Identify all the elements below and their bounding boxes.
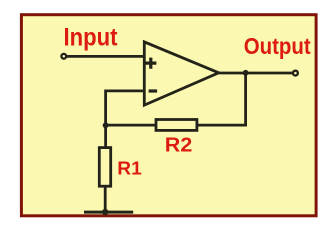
panel background with red border frame <box>21 15 316 216</box>
output terminal <box>293 71 298 76</box>
wire input to non-inverting pin <box>67 55 145 58</box>
svg-text:R2: R2 <box>165 135 193 157</box>
wire op-amp output to output terminal <box>219 72 293 75</box>
resistor R2 <box>156 120 197 131</box>
node A (feedback junction) <box>103 122 109 128</box>
svg-text:R1: R1 <box>117 157 142 178</box>
op-amp U1 <box>144 42 218 105</box>
op-amp minus pin marker <box>149 89 158 92</box>
op-amp plus pin marker <box>145 58 156 69</box>
wire node A to R2 left <box>106 124 156 127</box>
wire node A down to R1 top <box>104 125 107 147</box>
wire R2 right up to output node <box>197 73 246 125</box>
svg-text:Input: Input <box>64 23 119 51</box>
ground <box>84 211 133 214</box>
wire R1 bottom to ground <box>104 186 107 212</box>
resistor R1 <box>99 148 110 187</box>
ground junction dot <box>102 209 108 215</box>
svg-text:Output: Output <box>244 33 311 59</box>
input terminal <box>61 54 66 59</box>
node B (output junction) <box>243 70 249 76</box>
wire inverting pin to feedback node <box>106 91 144 125</box>
